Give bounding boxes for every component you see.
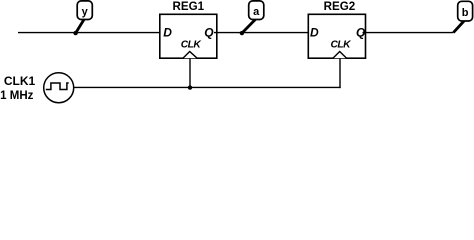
junction (clock net at REG1 drop) [188,85,192,89]
label CLK1 (name) [4,74,36,88]
wire (clock distribution, bottom horizontal) [74,86,341,88]
node a (flag label) [242,1,264,33]
svg-text:1 MHz: 1 MHz [0,90,33,102]
flip-flop REG2 [308,0,366,58]
flip-flop REG1 [160,0,217,58]
svg-text:Q: Q [204,26,214,40]
svg-text:CLK: CLK [331,40,352,51]
square-wave glyph [46,83,69,90]
svg-text:REG1: REG1 [173,0,205,13]
svg-text:CLK1: CLK1 [4,74,36,88]
svg-text:y: y [82,6,89,18]
label 1 MHz (value) [0,90,33,102]
junction (a tap) [240,31,244,35]
wire (input net y, left segment to REG1.D) [18,32,163,34]
junction (y tap) [73,31,77,35]
wire (REG2 clock drop) [339,58,341,88]
svg-text:D: D [163,26,172,40]
wire (net a: REG1.Q to REG2.D) [214,32,311,34]
clock edge triangle (REG2) [333,52,347,59]
clock edge triangle (REG1) [183,52,197,59]
node y (flag label) [76,1,93,33]
svg-text:CLK: CLK [181,40,202,51]
wire (REG1 clock drop) [189,58,191,87]
svg-text:D: D [310,26,319,40]
wire (net b: REG2.Q output) [363,32,454,34]
svg-text:a: a [253,6,260,18]
svg-text:REG2: REG2 [324,0,356,13]
node b (flag label) [453,1,472,32]
clock source CLK1 (circle symbol) [44,73,74,103]
svg-text:b: b [462,7,469,19]
